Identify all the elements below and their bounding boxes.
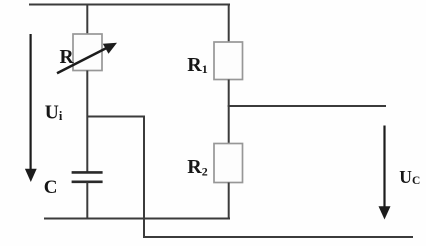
- wire C to bottom rail: [86, 183, 88, 220]
- svg-text:R1: R1: [187, 54, 207, 76]
- wire top right down to R1: [228, 5, 230, 43]
- capacitor C: [72, 172, 103, 181]
- wire top to R: [86, 5, 88, 35]
- svg-text:UC: UC: [399, 167, 420, 187]
- wire R1 to R2: [228, 80, 230, 145]
- node B branch wire: [228, 105, 386, 107]
- resistor R1 body: [214, 42, 243, 80]
- wire R to node A: [86, 71, 88, 174]
- svg-text:C: C: [44, 177, 58, 198]
- wire bottom ground rail: [44, 218, 230, 220]
- resistor R (variable) body: [73, 34, 102, 71]
- node A branch wire: [87, 117, 144, 238]
- wire bottom output rail: [143, 236, 413, 238]
- svg-text:R2: R2: [187, 156, 207, 178]
- resistor R2 body: [214, 144, 243, 183]
- wire top rail: [29, 4, 230, 6]
- svg-text:R: R: [60, 47, 75, 68]
- svg-text:Ui: Ui: [45, 102, 63, 123]
- arrow Ui: [25, 34, 37, 182]
- resistor R arrow: [57, 43, 117, 73]
- arrow Uc: [379, 126, 391, 220]
- wire R2 to ground rail: [228, 183, 230, 220]
